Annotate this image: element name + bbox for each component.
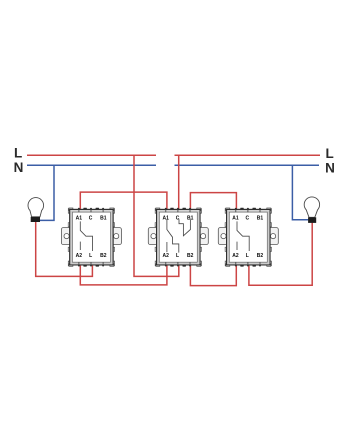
svg-text:L: L bbox=[246, 253, 249, 259]
wire: right line L to SW2 terminal C (red) bbox=[178, 155, 180, 211]
svg-text:C: C bbox=[176, 216, 180, 222]
svg-text:A1: A1 bbox=[232, 216, 239, 222]
lamp LP1 bbox=[28, 198, 44, 222]
terminal labels A1 C B1 / A2 L B2 bbox=[232, 216, 263, 259]
svg-text:A2: A2 bbox=[162, 253, 169, 259]
wire: SW1 terminal A2 to SW2 terminal A2 (red) bbox=[80, 264, 167, 285]
SW2 internal contacts A1-L and C-B1 bbox=[167, 219, 191, 252]
lamp LP2 bulb glass bbox=[304, 197, 319, 217]
svg-text:A2: A2 bbox=[76, 253, 83, 259]
wire: SW1 terminal A1 to SW2 terminal A1 (red) bbox=[80, 192, 167, 211]
svg-text:C: C bbox=[245, 216, 249, 222]
lamp LP1 bulb glass bbox=[28, 198, 44, 217]
wire: left line L (red) bbox=[27, 154, 156, 156]
svg-text:A1: A1 bbox=[162, 216, 169, 222]
terminal labels A1 C B1 / A2 L B2 bbox=[76, 216, 107, 259]
wire: SW2 terminal B1 to SW3 terminal A1 (red) bbox=[190, 193, 236, 211]
svg-text:B2: B2 bbox=[100, 253, 107, 259]
SW2 frame bbox=[148, 208, 208, 267]
wire: SW2 terminal B2 to SW3 terminal A2 (red) bbox=[190, 264, 236, 286]
svg-text:L: L bbox=[176, 253, 179, 259]
svg-text:A1: A1 bbox=[76, 216, 83, 222]
wire: right line N (blue) bbox=[175, 164, 320, 166]
SW1 frame bbox=[61, 208, 121, 267]
wire: left line N (blue) bbox=[27, 164, 156, 166]
svg-text:B1: B1 bbox=[100, 216, 107, 222]
svg-text:L: L bbox=[326, 146, 334, 161]
lamp LP2 bbox=[304, 197, 319, 223]
switch SW2 (intermediate) bbox=[148, 208, 208, 267]
SW3 frame bbox=[218, 208, 278, 267]
wire: N to lamp LP2 (blue) bbox=[292, 165, 308, 220]
wire: right line L (red) bbox=[175, 154, 321, 156]
lamp LP1 base cap bbox=[31, 217, 40, 222]
svg-text:B2: B2 bbox=[257, 253, 264, 259]
svg-text:L: L bbox=[14, 145, 22, 160]
terminal labels A1 C B1 / A2 L B2 bbox=[162, 216, 193, 259]
lamp LP2 base cap bbox=[308, 217, 316, 223]
svg-text:C: C bbox=[89, 216, 93, 222]
wire: SW3 terminal L to lamp LP2 (red) bbox=[249, 223, 312, 286]
svg-text:N: N bbox=[14, 160, 24, 175]
switch SW3 (two-way) bbox=[218, 208, 278, 267]
svg-text:B1: B1 bbox=[257, 216, 264, 222]
wire: lamp LP1 to SW1 terminal L (red) bbox=[36, 222, 93, 277]
SW3 internal contact A1-L bbox=[237, 221, 249, 251]
wire: N to lamp LP1 (blue) bbox=[40, 165, 54, 220]
svg-text:L: L bbox=[89, 253, 92, 259]
wire: left line L to SW2 terminal L (red) bbox=[134, 155, 179, 276]
svg-text:B1: B1 bbox=[187, 216, 194, 222]
svg-text:N: N bbox=[325, 161, 335, 176]
svg-text:A2: A2 bbox=[232, 253, 239, 259]
SW1 internal contact A1-L bbox=[80, 221, 92, 251]
svg-text:B2: B2 bbox=[187, 253, 194, 259]
switch SW1 (two-way) bbox=[61, 208, 121, 267]
